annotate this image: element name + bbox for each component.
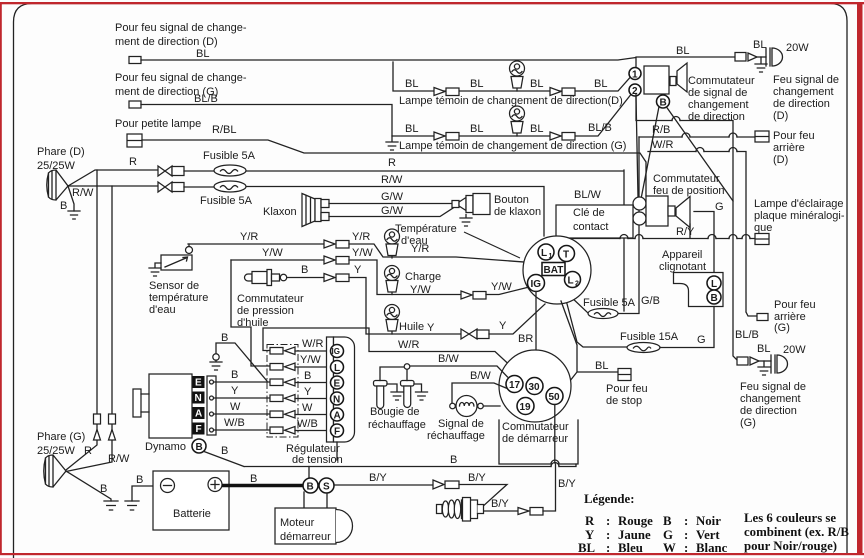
square A — [193, 407, 205, 419]
bullet connector Y/W — [324, 256, 335, 264]
svg-text:L: L — [541, 248, 547, 259]
wire signal right to starter — [484, 405, 501, 407]
svg-text:BL/B: BL/B — [194, 93, 218, 105]
junction terminal circle — [404, 364, 410, 370]
fusible 5A no3 — [588, 309, 618, 319]
wire B/W no2 — [452, 383, 506, 404]
battery plus terminal — [208, 478, 222, 492]
wire B pressure to connector — [287, 277, 324, 279]
wire row N — [214, 397, 271, 399]
svg-text:de stop: de stop — [606, 395, 642, 407]
svg-text:W/R: W/R — [302, 338, 323, 350]
svg-text:R/B: R/B — [652, 124, 670, 136]
svg-text:Dynamo: Dynamo — [145, 441, 186, 453]
node B relay — [303, 478, 318, 493]
vertical wire R down to phare G — [66, 170, 97, 470]
wire B/Y to plug — [459, 485, 507, 509]
hop on B wire — [551, 463, 559, 467]
wire B phare G — [66, 471, 111, 501]
appareil clignotant box — [674, 273, 724, 307]
connector on R/W down — [109, 414, 116, 424]
connector on R down — [94, 414, 101, 424]
wire bullet to lamp — [757, 56, 766, 58]
svg-text:(D): (D) — [773, 154, 788, 166]
svg-text:Fusible 5A: Fusible 5A — [200, 195, 253, 207]
ground phare G — [104, 501, 118, 510]
svg-text:IG: IG — [332, 347, 340, 356]
connector row B — [270, 379, 283, 386]
svg-text:température: température — [149, 292, 208, 304]
svg-text:B: B — [221, 445, 228, 457]
svg-text:Pour petite lampe: Pour petite lampe — [115, 118, 201, 130]
wire R from phare — [68, 170, 158, 186]
svg-text:BL: BL — [530, 78, 543, 90]
svg-text::: : — [684, 528, 688, 542]
svg-text:(D): (D) — [773, 110, 788, 122]
wire R/W from phare — [68, 185, 158, 187]
bullet connector row1 a — [434, 88, 445, 96]
node 17 — [506, 376, 523, 393]
bougie1 ground — [387, 384, 403, 400]
svg-text:Commutateur: Commutateur — [502, 421, 569, 433]
ground phare D — [68, 211, 80, 219]
svg-text:Vert: Vert — [696, 528, 720, 542]
svg-text:Lampe témoin de changement de: Lampe témoin de changement de direction … — [399, 140, 626, 152]
node A plate — [331, 408, 344, 421]
svg-text:que: que — [754, 222, 772, 234]
klaxon horn — [302, 194, 329, 227]
svg-text:réchauffage: réchauffage — [368, 419, 426, 431]
wire key to fuse3 — [570, 296, 588, 313]
wire Y to bowtie — [349, 278, 461, 335]
svg-text:B/W: B/W — [438, 353, 459, 365]
svg-text:E: E — [334, 379, 341, 390]
commutateur demarreur box — [499, 420, 578, 464]
regulator plate tab — [327, 337, 334, 442]
svg-text:de pression: de pression — [237, 305, 294, 317]
svg-text:B: B — [196, 442, 203, 453]
svg-text:B: B — [221, 332, 228, 344]
svg-text:Y: Y — [354, 264, 362, 276]
svg-text:contact: contact — [573, 221, 608, 233]
svg-text:Pour feu signal de change-: Pour feu signal de change- — [115, 72, 247, 84]
wire BL top — [141, 57, 736, 67]
svg-text:IG: IG — [531, 279, 542, 290]
svg-text:plaque minéralogi-: plaque minéralogi- — [754, 210, 845, 222]
bouton de klaxon plug — [452, 194, 490, 215]
svg-text:BAT: BAT — [544, 265, 564, 276]
sensor box — [161, 255, 192, 270]
starter switch big circle — [499, 350, 571, 422]
lever blade — [677, 63, 687, 92]
bougie2 ground — [414, 384, 428, 400]
wire R/W to key switch — [184, 187, 544, 237]
svg-text:BL: BL — [595, 360, 608, 372]
svg-text:B: B — [711, 293, 718, 304]
bulb temoin D — [510, 61, 525, 91]
wire key to BL junction — [561, 301, 618, 391]
svg-text:R: R — [84, 445, 92, 457]
wire B/W no1 — [409, 366, 508, 377]
wire G fuse to flasher — [660, 307, 714, 348]
glow plug bougie — [437, 498, 484, 522]
svg-text:Bleu: Bleu — [618, 541, 643, 555]
svg-text:Y: Y — [427, 322, 435, 334]
svg-text:(G): (G) — [740, 417, 756, 429]
svg-text:1: 1 — [549, 253, 553, 260]
cle de contact box — [556, 205, 633, 238]
svg-text:G: G — [663, 528, 673, 542]
wire lampe temoin G row — [393, 95, 631, 136]
phare G headlamp — [44, 455, 66, 487]
svg-text:B: B — [231, 369, 238, 381]
svg-text:G/B: G/B — [641, 295, 660, 307]
svg-text:B/Y: B/Y — [558, 478, 576, 490]
connector row W — [270, 411, 283, 418]
svg-text:Y/W: Y/W — [410, 284, 431, 296]
svg-text:B: B — [663, 514, 672, 528]
connector plaque mineralogique — [755, 234, 769, 245]
svg-text:Noir: Noir — [696, 514, 721, 528]
node 19 — [517, 398, 534, 415]
svg-text:N: N — [195, 393, 202, 404]
svg-text:Y/W: Y/W — [262, 247, 283, 259]
svg-text:Les 6 couleurs se: Les 6 couleurs se — [744, 511, 836, 525]
svg-text:R: R — [129, 156, 137, 168]
node B dynamo — [192, 439, 206, 453]
hops on R/B — [682, 133, 737, 137]
wire lampe temoin D row — [393, 62, 630, 91]
svg-text:BL: BL — [757, 343, 770, 355]
svg-text:19: 19 — [520, 402, 532, 413]
wire B/Y up to box — [543, 464, 556, 511]
svg-text:Température: Température — [395, 223, 457, 235]
svg-text:Signal de: Signal de — [438, 418, 484, 430]
dynamo shaft — [133, 389, 149, 417]
connector pour feu de stop — [618, 369, 631, 381]
bullet connector row2 a — [434, 132, 445, 140]
fusible 5A no2 — [214, 181, 246, 192]
svg-text:Feu signal de: Feu signal de — [773, 74, 839, 86]
dynamo terminal strip — [207, 376, 216, 435]
node E plate — [331, 376, 344, 389]
bullet connector row1 b — [550, 88, 561, 96]
svg-text:démarreur: démarreur — [280, 531, 331, 543]
svg-text:G: G — [697, 334, 706, 346]
svg-text:L: L — [568, 276, 574, 287]
svg-text:F: F — [334, 427, 340, 438]
battery minus terminal — [161, 479, 175, 493]
bowtie connector R/W — [158, 182, 172, 192]
svg-text:Y/W: Y/W — [352, 247, 373, 259]
connector row Y/W — [270, 364, 283, 371]
node IG plate — [331, 345, 344, 358]
fusible 15A — [627, 343, 660, 353]
pressure switch — [245, 270, 287, 286]
svg-text:Lampe d'éclairage: Lampe d'éclairage — [754, 198, 844, 210]
connector: pour feu signal D — [129, 57, 141, 64]
svg-text:20W: 20W — [783, 344, 806, 356]
position blade — [676, 197, 690, 228]
svg-text:de tension: de tension — [292, 454, 343, 466]
wire row E — [214, 381, 271, 383]
svg-text:BL/B: BL/B — [588, 122, 612, 134]
commutateur feu de position circles — [633, 197, 646, 210]
svg-text:(G): (G) — [774, 322, 790, 334]
pointer line temperature — [464, 232, 520, 258]
svg-text:R/BL: R/BL — [212, 124, 236, 136]
connector: pour feu signal G — [129, 101, 141, 108]
svg-text:BL: BL — [405, 78, 418, 90]
pin F — [210, 428, 214, 432]
svg-text:Pour feu: Pour feu — [606, 383, 648, 395]
svg-text:B: B — [307, 482, 314, 493]
svg-text:L: L — [711, 279, 717, 290]
bowtie connector Y — [461, 329, 477, 339]
connector pour feu arriere D — [755, 131, 769, 142]
svg-text:BR: BR — [518, 333, 533, 345]
svg-text:B: B — [304, 370, 311, 382]
wire R/B row — [639, 136, 755, 138]
wire Y/W to IG — [486, 287, 529, 295]
svg-text:BL: BL — [578, 541, 595, 555]
svg-text:1: 1 — [632, 70, 638, 81]
svg-text::: : — [606, 541, 610, 555]
svg-text:W/B: W/B — [297, 418, 318, 430]
svg-text:A: A — [334, 411, 341, 422]
svg-text:B/Y: B/Y — [468, 472, 486, 484]
wire Y to key — [489, 304, 545, 334]
svg-text:G/W: G/W — [381, 191, 404, 203]
svg-text:BL: BL — [196, 48, 209, 60]
svg-text:Pour feu: Pour feu — [774, 299, 816, 311]
node 30 — [526, 378, 543, 395]
svg-text:25/25W: 25/25W — [37, 160, 76, 172]
wire row F — [214, 429, 271, 431]
connector row W/R — [270, 348, 283, 355]
svg-text:de démarreur: de démarreur — [502, 433, 568, 445]
square F — [193, 423, 205, 435]
wire relay to motor — [304, 492, 327, 508]
svg-text:BL: BL — [530, 123, 543, 135]
wire Y/R to bulb — [349, 244, 524, 262]
commutateur signal switch box — [644, 66, 669, 94]
svg-text:W: W — [663, 541, 676, 555]
ground lampe temoin G row — [386, 136, 398, 150]
bullet connector Y/W no2 — [461, 291, 472, 299]
svg-text:réchauffage: réchauffage — [427, 430, 485, 442]
node B circle turn switch — [657, 95, 670, 108]
pin A — [210, 412, 214, 416]
svg-text:G/W: G/W — [381, 205, 404, 217]
svg-text:Jaune: Jaune — [618, 528, 651, 542]
wire switch box down — [636, 94, 737, 360]
bougie rechauffage no1 — [374, 381, 388, 409]
wire junction to starter relay B — [308, 467, 310, 479]
bulb charge — [385, 266, 400, 295]
svg-text:W/R: W/R — [652, 139, 673, 151]
wire BL/B — [141, 105, 392, 137]
svg-text:20W: 20W — [786, 42, 809, 54]
commutateur feu de position box — [646, 196, 668, 226]
ground lamp G — [758, 361, 770, 375]
wire R/Y row — [556, 238, 756, 240]
svg-text:feu de position: feu de position — [653, 185, 725, 197]
bullet connector B/Y — [433, 480, 444, 489]
svg-text:de klaxon: de klaxon — [494, 206, 541, 218]
svg-text:BL/W: BL/W — [574, 189, 602, 201]
bulb huile — [385, 305, 400, 335]
bullet connector BL lamp D — [735, 53, 746, 62]
svg-text:Fusible 5A: Fusible 5A — [203, 150, 256, 162]
moteur demarreur box — [275, 508, 353, 544]
ground battery — [125, 501, 139, 510]
svg-text:combinent (ex. R/B: combinent (ex. R/B — [744, 525, 849, 539]
wire Y/W to bulb charge — [349, 260, 461, 295]
node L plate — [331, 361, 344, 374]
svg-text:Charge: Charge — [405, 271, 441, 283]
node B flasher — [707, 290, 721, 304]
wire B phare D to ground — [68, 186, 74, 211]
wire B/Y from S — [334, 484, 433, 486]
wire G/W no2 — [329, 208, 453, 217]
pin N — [210, 396, 214, 400]
bougie rechauffage no2 — [401, 381, 415, 408]
wire diagonal to position switch — [636, 97, 659, 200]
svg-text:Y/R: Y/R — [352, 231, 370, 243]
svg-text:Clé de: Clé de — [573, 207, 605, 219]
svg-text:R/W: R/W — [381, 174, 403, 186]
wire W/R row — [648, 152, 757, 317]
regulator ground terminal — [216, 343, 267, 381]
svg-text:BL: BL — [470, 123, 483, 135]
ground lamp D — [755, 57, 767, 72]
position lever — [668, 206, 675, 216]
svg-text:B/W: B/W — [470, 370, 491, 382]
svg-text:25/25W: 25/25W — [37, 445, 76, 457]
ground bouton klaxon — [460, 215, 472, 227]
wire Y/R row — [188, 243, 324, 245]
svg-text:W/B: W/B — [224, 417, 245, 429]
wire Y/W row — [231, 259, 324, 261]
regulator plate — [334, 337, 355, 442]
svg-text:Batterie: Batterie — [173, 508, 211, 520]
svg-text:Huile: Huile — [399, 321, 424, 333]
ground regulator — [210, 360, 222, 370]
node L flasher — [707, 276, 721, 290]
svg-text:Commutateur: Commutateur — [688, 75, 755, 87]
wire G/W no1 — [329, 203, 453, 205]
svg-text:T: T — [563, 250, 569, 261]
bowtie connector R — [158, 166, 172, 176]
node 2 circle — [629, 84, 641, 96]
svg-text::: : — [684, 514, 688, 528]
svg-text:ment de direction (D): ment de direction (D) — [115, 36, 218, 48]
wire B diagonal to flasher — [667, 107, 734, 273]
svg-text:W: W — [230, 401, 241, 413]
node F plate — [331, 424, 344, 437]
svg-text:Moteur: Moteur — [280, 517, 315, 529]
svg-text:B: B — [301, 264, 308, 276]
svg-text:Blanc: Blanc — [696, 541, 728, 555]
svg-text::: : — [606, 514, 610, 528]
wire sensor to Y/R — [188, 244, 190, 247]
wire BR key to starter — [535, 292, 537, 378]
node S relay — [319, 478, 334, 493]
connector: pour petite lampe — [127, 134, 142, 147]
svg-text:Pour feu: Pour feu — [773, 130, 815, 142]
pin E — [210, 380, 214, 384]
svg-text:G: G — [715, 201, 724, 213]
svg-text:Bouton: Bouton — [494, 194, 529, 206]
arrow on R/W down — [109, 430, 116, 441]
wire regulator to B line — [336, 442, 338, 460]
svg-text:R/W: R/W — [72, 187, 94, 199]
svg-text:L: L — [334, 363, 340, 374]
fusible 5A no1 — [214, 165, 246, 176]
svg-text:E: E — [195, 378, 202, 389]
wire 50 to box bump — [554, 405, 556, 464]
wire lever down — [689, 224, 691, 238]
regulator connector dashed box — [267, 345, 298, 438]
svg-text:clignotant: clignotant — [659, 261, 706, 273]
svg-text:Fusible 15A: Fusible 15A — [620, 331, 679, 343]
wires rows to plate — [295, 351, 329, 431]
svg-text:Klaxon: Klaxon — [263, 206, 297, 218]
svg-text:B: B — [136, 474, 143, 486]
svg-text:2: 2 — [632, 86, 638, 97]
svg-text:arrière: arrière — [773, 142, 805, 154]
hops on R/Y — [620, 235, 750, 239]
node IG — [528, 275, 545, 292]
svg-text:BL/B: BL/B — [735, 329, 759, 341]
lamp feu signal G — [771, 355, 788, 373]
svg-text:Commutateur: Commutateur — [237, 293, 304, 305]
lever rect — [670, 77, 676, 86]
wire battery minus to ground — [132, 486, 153, 501]
node N plate — [331, 392, 344, 405]
svg-text:de direction: de direction — [740, 405, 797, 417]
svg-text:B: B — [60, 200, 67, 212]
node T — [559, 246, 575, 262]
svg-text:Rouge: Rouge — [618, 514, 653, 528]
svg-text:Y: Y — [231, 385, 239, 397]
svg-text:Feu signal de: Feu signal de — [740, 381, 806, 393]
svg-text:d'huile: d'huile — [237, 317, 268, 329]
sensor switch lever — [165, 257, 188, 267]
svg-text:Y/W: Y/W — [300, 354, 321, 366]
svg-text:BL: BL — [676, 45, 689, 57]
svg-text:B: B — [450, 454, 457, 466]
node 50 — [546, 388, 563, 405]
svg-text:de direction: de direction — [773, 98, 830, 110]
svg-text:30: 30 — [529, 382, 541, 393]
svg-text:F: F — [196, 424, 202, 435]
svg-text:BL: BL — [594, 78, 607, 90]
svg-text:R: R — [585, 514, 595, 528]
battery box — [153, 471, 229, 530]
bulb temperature d'eau — [385, 229, 400, 258]
connector row Y — [270, 395, 283, 402]
thick wire battery to relay — [222, 484, 304, 488]
bullet connector B/Y no2 — [518, 508, 529, 515]
terminal circle gnd — [213, 354, 219, 360]
connector pour feu arriere G — [757, 314, 768, 321]
svg-text:Phare (D): Phare (D) — [37, 146, 85, 158]
svg-text::: : — [606, 528, 610, 542]
phare D headlamp — [47, 170, 68, 200]
square N — [193, 392, 205, 404]
